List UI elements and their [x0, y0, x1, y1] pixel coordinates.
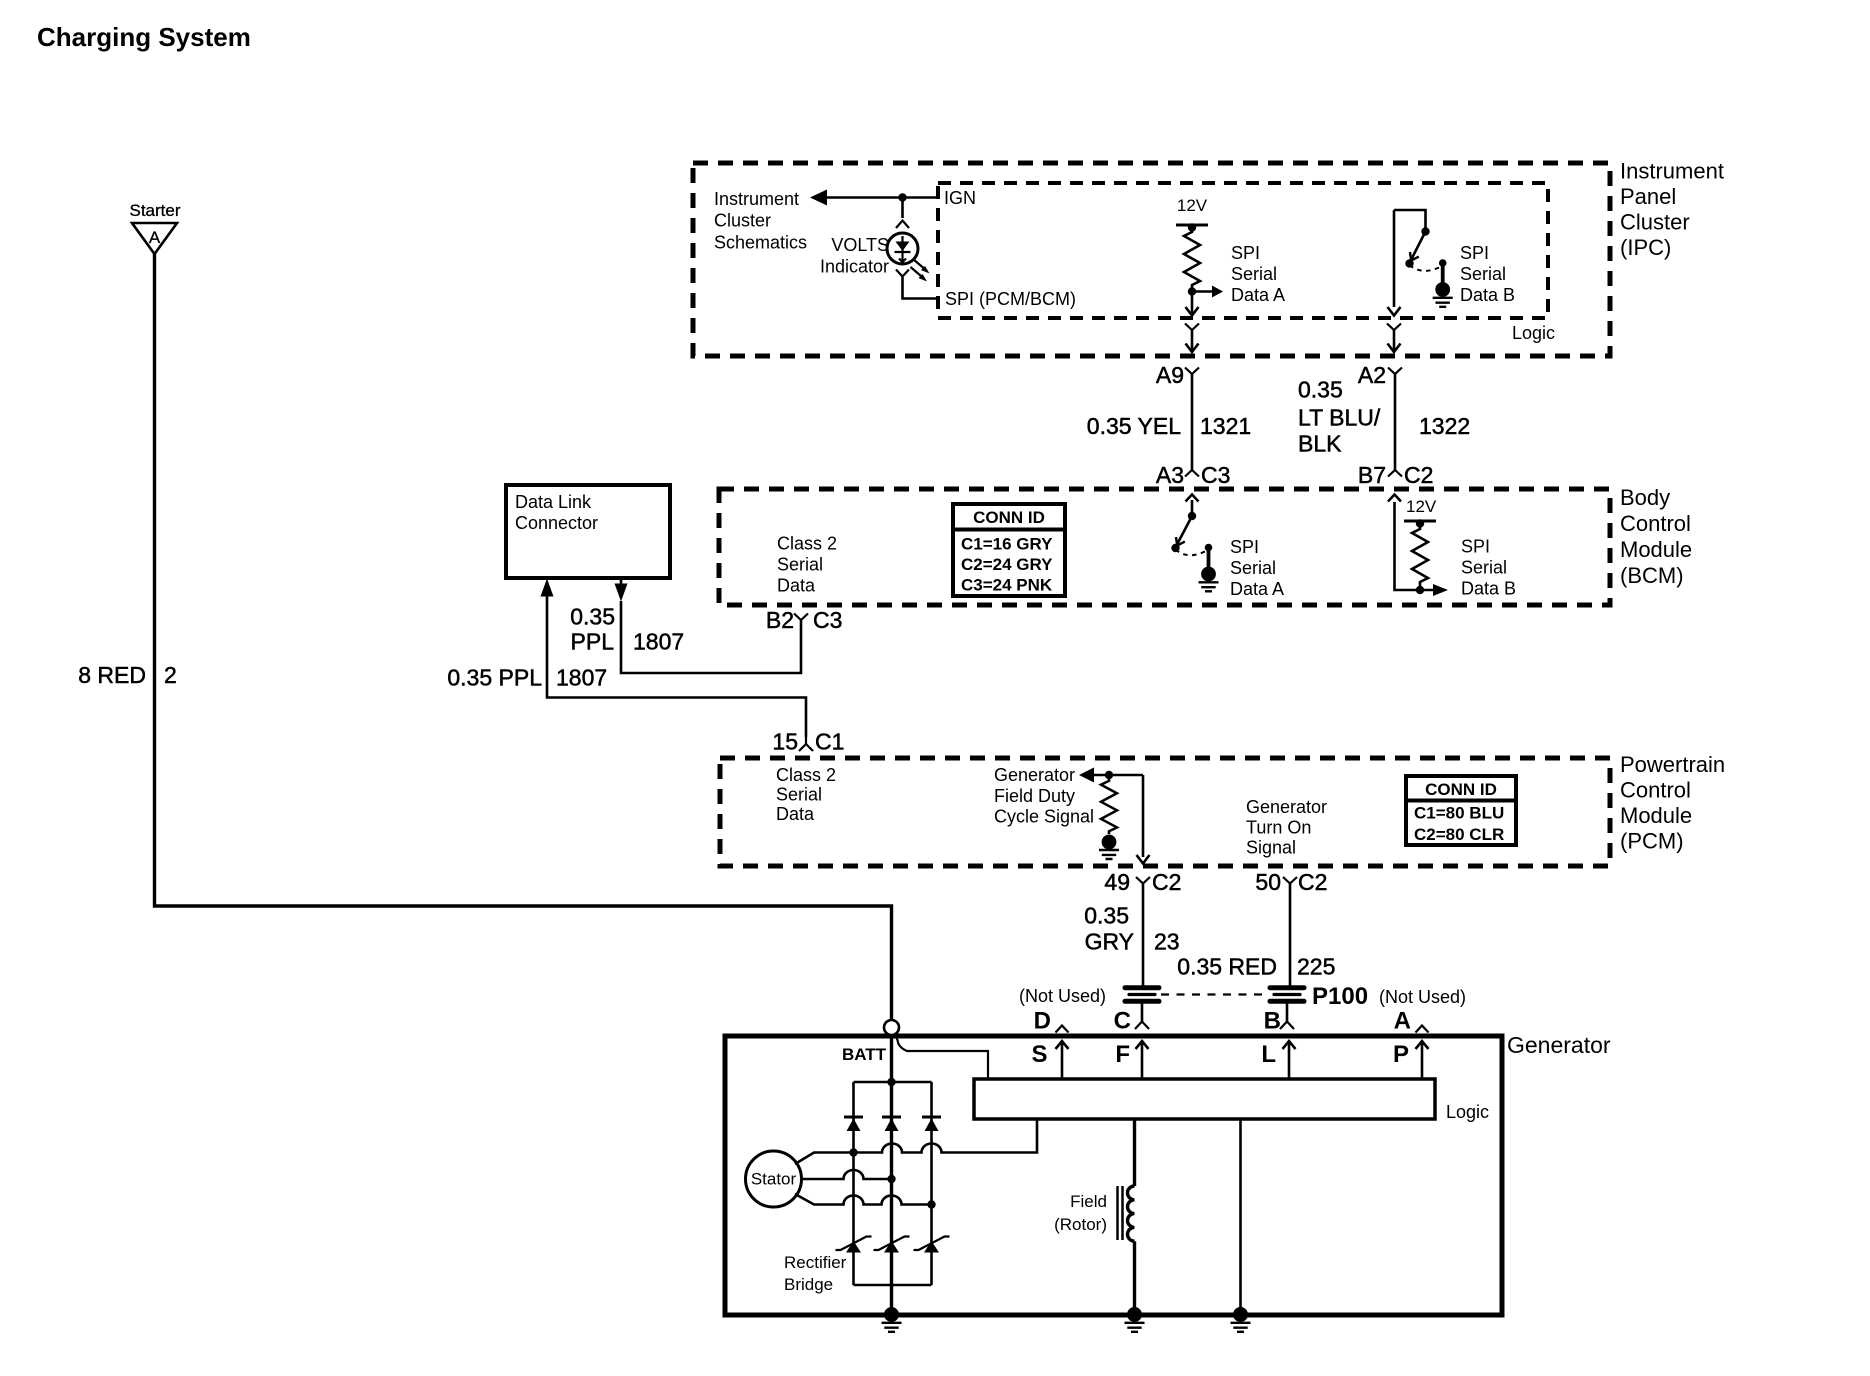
- svg-text:C2: C2: [1404, 462, 1433, 488]
- svg-text:Generator: Generator: [994, 765, 1075, 785]
- svg-text:0.35 YEL: 0.35 YEL: [1087, 413, 1181, 439]
- svg-text:Body: Body: [1620, 485, 1670, 510]
- svg-text:IGN: IGN: [944, 188, 976, 208]
- svg-text:23: 23: [1154, 929, 1180, 955]
- svg-text:C2: C2: [1152, 869, 1181, 895]
- svg-text:Class 2: Class 2: [776, 765, 836, 785]
- svg-text:C3: C3: [1201, 462, 1230, 488]
- svg-text:Serial: Serial: [1230, 558, 1276, 578]
- svg-text:Powertrain: Powertrain: [1620, 752, 1725, 777]
- svg-text:15: 15: [772, 729, 798, 755]
- svg-text:(BCM): (BCM): [1620, 563, 1684, 588]
- svg-text:Logic: Logic: [1512, 323, 1555, 343]
- svg-text:A: A: [149, 228, 161, 247]
- svg-text:A: A: [1394, 1008, 1411, 1035]
- svg-text:Serial: Serial: [777, 555, 823, 575]
- svg-text:Panel: Panel: [1620, 184, 1676, 209]
- svg-text:Charging System: Charging System: [37, 22, 251, 52]
- svg-text:Serial: Serial: [1231, 264, 1277, 284]
- svg-text:Module: Module: [1620, 537, 1692, 562]
- svg-text:Data B: Data B: [1461, 579, 1516, 599]
- svg-text:Rectifier: Rectifier: [784, 1253, 847, 1272]
- svg-text:C2: C2: [1298, 869, 1327, 895]
- svg-text:1322: 1322: [1419, 413, 1470, 439]
- svg-text:B7: B7: [1358, 462, 1386, 488]
- svg-text:1807: 1807: [556, 665, 607, 691]
- svg-text:Data Link: Data Link: [515, 492, 592, 512]
- svg-text:Turn On: Turn On: [1246, 817, 1311, 837]
- svg-text:Instrument: Instrument: [714, 189, 799, 209]
- svg-text:1807: 1807: [633, 629, 684, 655]
- svg-text:0.35 PPL: 0.35 PPL: [447, 665, 542, 691]
- svg-text:BLK: BLK: [1298, 431, 1342, 457]
- svg-text:SPI (PCM/BCM): SPI (PCM/BCM): [945, 289, 1076, 309]
- svg-text:Serial: Serial: [776, 785, 822, 805]
- svg-text:A2: A2: [1358, 362, 1386, 388]
- svg-text:Bridge: Bridge: [784, 1275, 833, 1294]
- svg-text:C2=24 GRY: C2=24 GRY: [961, 555, 1053, 574]
- svg-text:C2=80 CLR: C2=80 CLR: [1414, 825, 1504, 844]
- svg-text:BATT: BATT: [842, 1045, 887, 1064]
- svg-text:Field Duty: Field Duty: [994, 786, 1075, 806]
- svg-text:Indicator: Indicator: [820, 257, 889, 277]
- svg-text:PPL: PPL: [571, 629, 615, 655]
- svg-text:C1: C1: [815, 729, 844, 755]
- svg-text:Signal: Signal: [1246, 838, 1296, 858]
- svg-text:Stator: Stator: [751, 1170, 797, 1189]
- svg-text:49: 49: [1104, 869, 1130, 895]
- svg-text:0.35: 0.35: [1084, 903, 1129, 929]
- svg-text:Serial: Serial: [1461, 558, 1507, 578]
- svg-text:Schematics: Schematics: [714, 232, 807, 252]
- svg-text:P100: P100: [1312, 983, 1368, 1010]
- svg-text:8 RED: 8 RED: [78, 662, 146, 688]
- svg-text:0.35: 0.35: [570, 604, 615, 630]
- svg-text:Control: Control: [1620, 511, 1691, 536]
- svg-text:0.35: 0.35: [1298, 377, 1343, 403]
- svg-text:12V: 12V: [1406, 497, 1437, 516]
- svg-text:S: S: [1031, 1041, 1047, 1068]
- svg-text:(IPC): (IPC): [1620, 235, 1671, 260]
- svg-text:C: C: [1114, 1008, 1131, 1035]
- svg-text:Connector: Connector: [515, 513, 598, 533]
- svg-text:Data B: Data B: [1460, 285, 1515, 305]
- svg-text:Instrument: Instrument: [1620, 159, 1724, 184]
- svg-text:B: B: [1264, 1008, 1281, 1035]
- svg-text:Cluster: Cluster: [1620, 210, 1690, 235]
- svg-text:A3: A3: [1156, 462, 1184, 488]
- svg-text:Serial: Serial: [1460, 264, 1506, 284]
- svg-text:Cycle Signal: Cycle Signal: [994, 807, 1094, 827]
- svg-text:Data A: Data A: [1230, 579, 1284, 599]
- svg-text:0.35 RED: 0.35 RED: [1177, 954, 1277, 980]
- svg-text:Field: Field: [1070, 1192, 1107, 1211]
- svg-text:2: 2: [164, 662, 177, 688]
- svg-text:GRY: GRY: [1085, 929, 1134, 955]
- svg-text:SPI: SPI: [1460, 243, 1489, 263]
- svg-text:Data: Data: [776, 804, 815, 824]
- svg-text:(PCM): (PCM): [1620, 829, 1684, 854]
- svg-text:CONN ID: CONN ID: [973, 508, 1045, 527]
- svg-text:SPI: SPI: [1230, 537, 1259, 557]
- svg-text:Cluster: Cluster: [714, 211, 771, 231]
- svg-text:Logic: Logic: [1446, 1102, 1489, 1122]
- svg-text:B2: B2: [766, 607, 794, 633]
- svg-text:P: P: [1393, 1041, 1409, 1068]
- svg-text:CONN ID: CONN ID: [1425, 780, 1497, 799]
- svg-text:A9: A9: [1156, 362, 1184, 388]
- svg-text:C3: C3: [813, 607, 842, 633]
- svg-text:225: 225: [1297, 954, 1335, 980]
- svg-text:Generator: Generator: [1507, 1032, 1611, 1058]
- svg-text:Module: Module: [1620, 803, 1692, 828]
- svg-text:(Not Used): (Not Used): [1379, 987, 1466, 1007]
- svg-text:LT BLU/: LT BLU/: [1298, 405, 1381, 431]
- svg-text:L: L: [1261, 1041, 1276, 1068]
- svg-text:SPI: SPI: [1461, 537, 1490, 557]
- svg-text:Data: Data: [777, 576, 816, 596]
- svg-text:Generator: Generator: [1246, 797, 1327, 817]
- svg-text:C1=16 GRY: C1=16 GRY: [961, 535, 1053, 554]
- svg-text:12V: 12V: [1177, 196, 1208, 215]
- svg-text:F: F: [1115, 1041, 1130, 1068]
- svg-text:VOLTS: VOLTS: [831, 235, 889, 255]
- svg-text:50: 50: [1255, 869, 1281, 895]
- svg-text:Class 2: Class 2: [777, 534, 837, 554]
- svg-text:Starter: Starter: [129, 201, 180, 220]
- svg-text:(Rotor): (Rotor): [1054, 1215, 1107, 1234]
- svg-text:D: D: [1034, 1008, 1051, 1035]
- svg-text:Control: Control: [1620, 778, 1691, 803]
- svg-text:C1=80 BLU: C1=80 BLU: [1414, 804, 1504, 823]
- svg-text:C3=24 PNK: C3=24 PNK: [961, 576, 1053, 595]
- svg-text:Data A: Data A: [1231, 285, 1285, 305]
- svg-text:(Not Used): (Not Used): [1019, 986, 1106, 1006]
- svg-text:SPI: SPI: [1231, 243, 1260, 263]
- svg-text:1321: 1321: [1200, 413, 1251, 439]
